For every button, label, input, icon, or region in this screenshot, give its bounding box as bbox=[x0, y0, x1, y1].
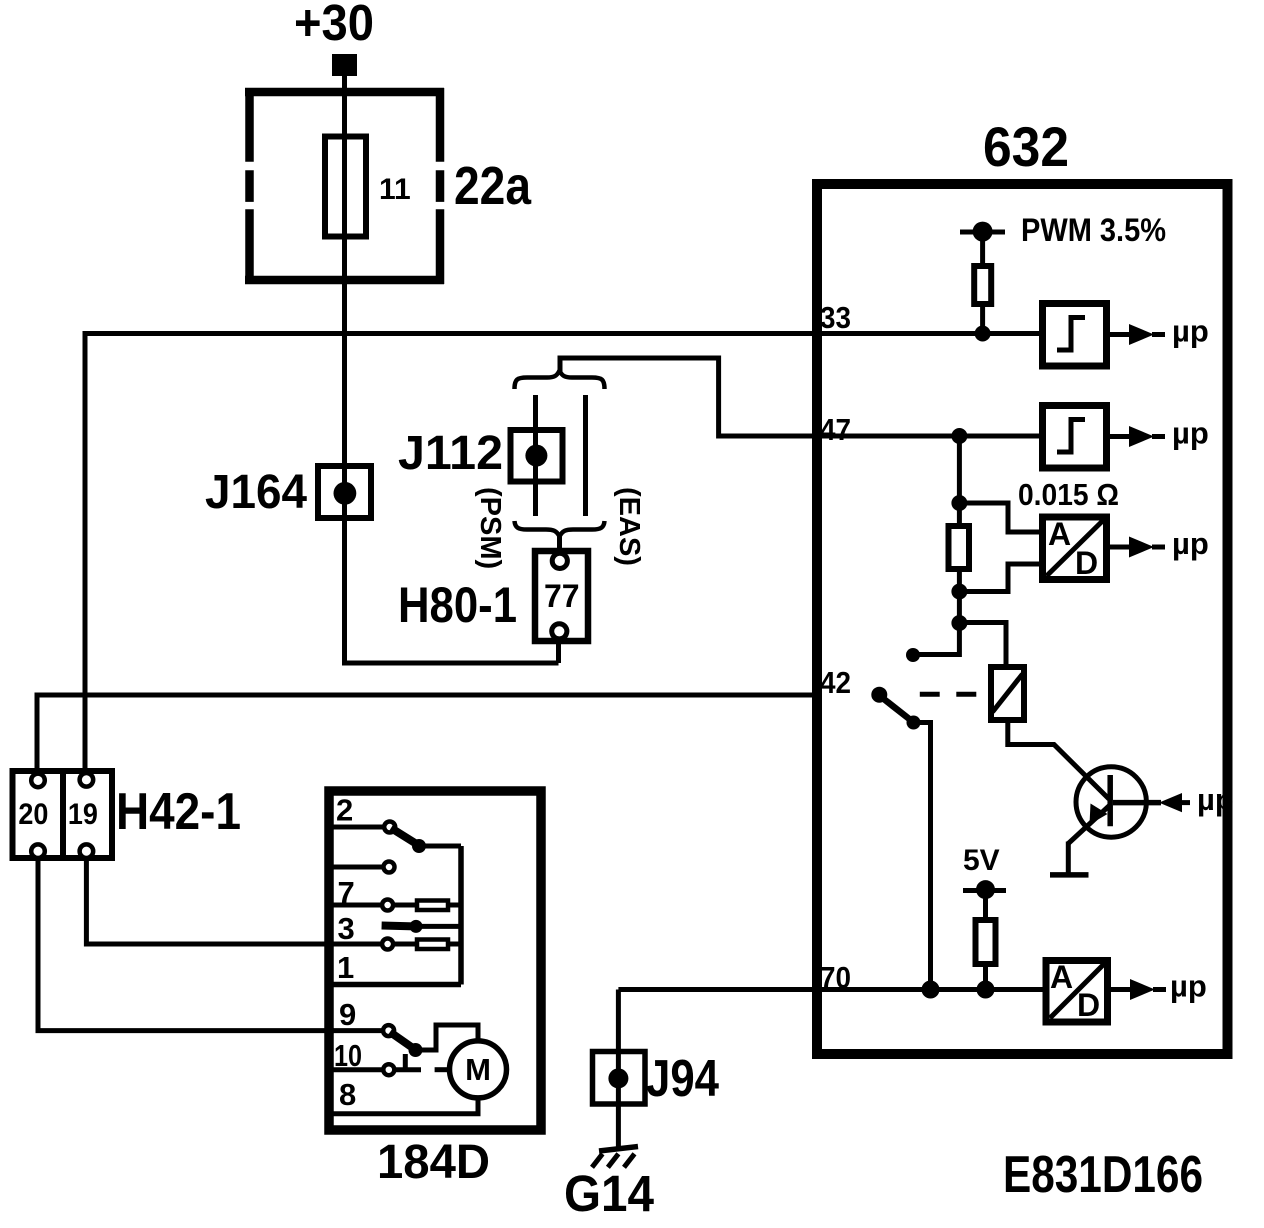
wire H80-1 bottom riser bbox=[556, 639, 561, 663]
184D pin 9 contact circle bbox=[383, 1025, 394, 1036]
184D switch blade pin 2 bbox=[391, 828, 419, 846]
junction dot shunt bottom bbox=[951, 584, 967, 600]
svg-text:H42-1: H42-1 bbox=[116, 783, 241, 841]
ground G14 hatch 2 bbox=[608, 1154, 619, 1168]
comparator U2 step icon bbox=[1057, 420, 1085, 453]
comparator U1 box bbox=[1043, 304, 1107, 367]
blade end dot bbox=[907, 716, 921, 730]
svg-text:H80-1: H80-1 bbox=[398, 577, 517, 633]
184D pin 3 line bbox=[329, 942, 382, 947]
Q1 emitter bbox=[1068, 805, 1110, 844]
svg-text:22a: 22a bbox=[454, 156, 532, 216]
184D pin 3 link to resistor bbox=[393, 942, 417, 947]
wire blade to motor top bbox=[416, 1025, 479, 1050]
184D motor switch blade bbox=[390, 1032, 415, 1050]
fuse 11 element bbox=[325, 137, 366, 237]
svg-text:8: 8 bbox=[339, 1077, 356, 1112]
H42-1 pin 20 bottom circle bbox=[31, 844, 45, 858]
resistor R4 (5V pull-up) bbox=[976, 920, 996, 964]
Q1 emitter arrow bbox=[1090, 804, 1108, 825]
184D pin 7 line bbox=[329, 903, 382, 908]
H80-1 pin circle bottom bbox=[552, 624, 567, 639]
control unit 184D box bbox=[329, 791, 541, 1130]
wire sense bus vertical bbox=[957, 436, 962, 657]
H42-1 pin 19 bottom circle bbox=[80, 844, 94, 858]
element H80-1 box bbox=[535, 551, 588, 641]
svg-text:E831D166: E831D166 bbox=[1003, 1146, 1203, 1204]
shunt resistor 0.015 ohm bbox=[949, 526, 970, 569]
wire PWM to resistor bbox=[980, 232, 985, 268]
184D pin 10 stub bbox=[394, 1067, 421, 1072]
5V terminal dot bbox=[976, 880, 995, 899]
svg-text:2: 2 bbox=[336, 793, 353, 828]
junction dot shunt top bbox=[951, 495, 967, 511]
PWM terminal bar bbox=[960, 230, 1005, 235]
junction dot pin 70 left bbox=[922, 981, 940, 999]
switch pivot dot pin 42 bbox=[871, 687, 887, 703]
184D pin 7 contact circle bbox=[382, 900, 393, 911]
184D pin 10 contact circle bbox=[383, 1064, 394, 1075]
wire resistor to pin 33 line bbox=[980, 304, 985, 334]
svg-text:J164: J164 bbox=[205, 466, 307, 519]
switch blade pin 42 bbox=[880, 696, 913, 722]
184D blade to bus bbox=[419, 844, 461, 849]
svg-text:PWM 3.5%: PWM 3.5% bbox=[1021, 212, 1166, 248]
junction dot pin 70 right bbox=[977, 981, 995, 999]
wire pin 42 horizontal bbox=[37, 693, 822, 698]
svg-text:42: 42 bbox=[820, 665, 851, 700]
connector J112 contact dot bbox=[525, 445, 547, 467]
wire pin 33 horizontal bbox=[85, 331, 822, 336]
U1 output arrow bbox=[1129, 324, 1154, 345]
184D motor blade dot bbox=[409, 1043, 423, 1057]
wire pin 47 inside bbox=[822, 434, 1044, 439]
A/D converter U3 box bbox=[1043, 517, 1107, 580]
svg-text:0.015 Ω: 0.015 Ω bbox=[1018, 477, 1119, 512]
svg-text:20: 20 bbox=[18, 798, 48, 831]
svg-text:1: 1 bbox=[337, 950, 354, 985]
svg-text:D: D bbox=[1075, 545, 1098, 581]
mech link dashes bbox=[920, 692, 940, 697]
junction dot pin 33 bbox=[975, 326, 991, 342]
relay contact dot bbox=[906, 648, 920, 662]
wire shunt top sense bbox=[959, 503, 1044, 532]
U4 output wire bbox=[1107, 987, 1131, 992]
Q1 base bar bbox=[1107, 775, 1113, 826]
U2 output arrow bbox=[1129, 426, 1154, 447]
svg-text:µp: µp bbox=[1170, 969, 1207, 1004]
relay coil K1 box bbox=[991, 667, 1024, 720]
svg-text:M: M bbox=[465, 1052, 491, 1087]
resistor R3 (pull-up PWM) bbox=[974, 266, 991, 304]
svg-text:77: 77 bbox=[544, 578, 580, 614]
wire PSM branch (left vertical) bbox=[533, 395, 538, 516]
wire +30 feed down through fuse to J164 bbox=[342, 76, 347, 666]
svg-text:A: A bbox=[1048, 516, 1071, 552]
svg-text:µp: µp bbox=[1172, 416, 1209, 451]
wire emitter to ground bbox=[1066, 842, 1071, 875]
wire J164 bottom to H80-1 bbox=[342, 661, 559, 666]
U2 output wire bbox=[1107, 434, 1131, 439]
svg-text:(PSM): (PSM) bbox=[474, 487, 506, 569]
184D wiper blade (pin 3) bbox=[382, 922, 414, 931]
184D wiper dot bbox=[410, 920, 423, 933]
184D resistor R2 to bus bbox=[449, 942, 461, 947]
junction dot pin 47 bbox=[951, 428, 967, 444]
connector J94 contact dot bbox=[608, 1068, 628, 1088]
ECU 632 box bbox=[817, 184, 1228, 1054]
184D pin 2 contact circle bbox=[384, 822, 395, 833]
U2 output stub bbox=[1152, 434, 1165, 439]
U1 output wire bbox=[1107, 332, 1131, 337]
base arrow stub bbox=[1181, 800, 1190, 805]
base arrow (pointing left) bbox=[1159, 793, 1182, 812]
junction dot coil feed bbox=[951, 615, 967, 631]
184D inner bus vertical bbox=[458, 846, 464, 985]
connector J164 contact dot bbox=[334, 482, 357, 505]
comparator U1 step icon bbox=[1057, 318, 1085, 351]
PWM terminal dot bbox=[973, 222, 993, 242]
184D blade junction dot bbox=[412, 839, 426, 853]
svg-text:11: 11 bbox=[379, 173, 411, 206]
+30 terminal square bbox=[332, 54, 357, 76]
wire H42-1 pin 20 to 184D pin 9 bbox=[38, 858, 334, 1031]
svg-text:5V: 5V bbox=[963, 844, 1000, 877]
svg-text:9: 9 bbox=[339, 997, 356, 1032]
wire shunt bottom sense bbox=[959, 564, 1044, 592]
U3 output stub bbox=[1152, 545, 1165, 550]
184D idle contact circle bbox=[384, 862, 395, 873]
U1 output stub bbox=[1152, 332, 1165, 337]
svg-text:+30: +30 bbox=[294, 0, 374, 51]
184D pin 8 line to motor bottom bbox=[329, 1097, 478, 1114]
wire 5V to resistor bbox=[983, 890, 988, 922]
transistor Q1 circle bbox=[1076, 767, 1146, 837]
5V terminal bar bbox=[963, 888, 1006, 893]
184D switch pivot bracket bbox=[403, 1054, 408, 1072]
svg-text:J94: J94 bbox=[646, 1050, 719, 1108]
svg-text:µp: µp bbox=[1197, 782, 1234, 817]
resistor R2 (pin 3) bbox=[417, 940, 448, 950]
184D resistor R1 to bus bbox=[449, 903, 461, 908]
svg-text:G14: G14 bbox=[564, 1165, 655, 1222]
wire pin 70 row bbox=[618, 987, 1048, 992]
svg-text:47: 47 bbox=[820, 412, 851, 447]
brace upper (branch split) bbox=[515, 371, 605, 390]
K1 diagonal bbox=[993, 674, 1023, 712]
resistor R1 (pin 7) bbox=[417, 901, 448, 911]
184D pin 7 link to resistor bbox=[393, 903, 417, 908]
svg-text:19: 19 bbox=[68, 798, 98, 831]
svg-text:(EAS): (EAS) bbox=[613, 487, 645, 566]
wire J94 riser bbox=[616, 990, 621, 1149]
184D pin 3 contact circle bbox=[382, 939, 393, 950]
connector J164 box bbox=[318, 466, 371, 518]
ground G14 bar bbox=[599, 1147, 638, 1152]
184D pin 2 line bbox=[329, 825, 384, 830]
motor M circle bbox=[450, 1041, 507, 1098]
wire pin 33 vertical to H42-1 pin 19 bbox=[83, 331, 88, 772]
svg-text:3: 3 bbox=[338, 911, 355, 946]
U4 output arrow bbox=[1130, 979, 1155, 1000]
ground G14 hatch 3 bbox=[624, 1154, 635, 1168]
svg-text:632: 632 bbox=[983, 115, 1069, 178]
wire EAS branch (right vertical) bbox=[583, 395, 588, 516]
U3 output arrow bbox=[1129, 537, 1154, 558]
U3 output wire bbox=[1107, 545, 1131, 550]
U3 diagonal bbox=[1047, 521, 1104, 577]
connector H42-1 divider bbox=[60, 771, 66, 858]
H42-1 pin 20 top circle bbox=[31, 774, 45, 788]
184D idle contact line bbox=[329, 865, 384, 870]
wire pin 33 to comparator bbox=[822, 331, 1044, 336]
wire brace to H80-1 top bbox=[557, 535, 562, 556]
svg-text:A: A bbox=[1050, 959, 1073, 995]
H80-1 pin circle top bbox=[552, 553, 567, 568]
svg-text:33: 33 bbox=[820, 300, 851, 335]
connector J112 box bbox=[511, 430, 563, 482]
184D wiper to bus bbox=[416, 924, 461, 929]
wire resistor to pin 70 line bbox=[983, 964, 988, 989]
184D open contact dash to motor bbox=[435, 1067, 449, 1072]
wire pin 47 from 632 to branch point bbox=[560, 358, 822, 436]
wire pin 42 vertical to H42-1 pin 20 bbox=[35, 693, 40, 773]
comparator U2 box bbox=[1043, 406, 1107, 469]
wire H42-1 pin 19 to 184D pin 3 bbox=[86, 858, 334, 944]
184D pin 9 line bbox=[329, 1028, 383, 1033]
fuse holder box 22a (dashed sides) bbox=[245, 88, 444, 284]
U4 output stub bbox=[1153, 987, 1166, 992]
wire blade to pin 70 row bbox=[914, 723, 931, 990]
wire to relay coil bbox=[959, 623, 1006, 670]
brace lower (branch merge) bbox=[515, 521, 605, 537]
wire coil to transistor collector bbox=[1008, 720, 1109, 799]
svg-text:D: D bbox=[1077, 987, 1100, 1023]
Q1 base wire bbox=[1113, 800, 1161, 806]
184D pin 1 bottom line bbox=[329, 982, 461, 988]
184D pin 10 line bbox=[329, 1067, 384, 1072]
connector J94 box bbox=[593, 1052, 646, 1105]
A/D converter U4 box bbox=[1046, 961, 1108, 1023]
svg-text:184D: 184D bbox=[377, 1136, 490, 1189]
svg-text:J112: J112 bbox=[398, 427, 503, 480]
H42-1 pin 19 top circle bbox=[80, 773, 94, 787]
internal ground bar bbox=[1050, 872, 1089, 878]
svg-text:µp: µp bbox=[1172, 526, 1209, 561]
U4 diagonal bbox=[1050, 964, 1104, 1018]
connector H42-1 box bbox=[13, 771, 113, 858]
ground G14 hatch 1 bbox=[592, 1154, 603, 1168]
wire contact to bus bbox=[913, 652, 959, 657]
svg-text:µp: µp bbox=[1172, 314, 1209, 349]
